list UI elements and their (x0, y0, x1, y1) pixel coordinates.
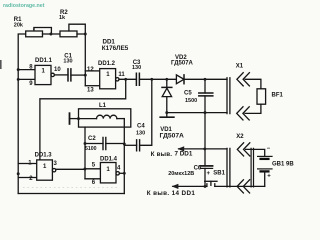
inductor L1 shield box (79, 109, 131, 127)
wire DD1.2 pin13 stub (85, 85, 99, 87)
antenna probe (69, 113, 71, 124)
connector X1 socket lines (227, 78, 230, 114)
svg-text:130: 130 (132, 65, 141, 71)
wire R2 bracket (69, 24, 85, 34)
svg-text:7 DD1: 7 DD1 (175, 151, 193, 158)
node R2 right (84, 33, 87, 36)
capacitor C4 (137, 140, 140, 151)
node DD1.3 out (83, 168, 86, 171)
capacitor C5 (204, 79, 206, 93)
diode VD2 (176, 75, 184, 84)
svg-text:130: 130 (136, 131, 145, 137)
connector X1 top contact (237, 73, 243, 86)
svg-text:radiostorage.net: radiostorage.net (3, 3, 45, 9)
svg-text:К выв.: К выв. (151, 151, 173, 158)
node pin8 (17, 68, 20, 71)
node C1-R2 (84, 74, 87, 77)
arrow to pin 7 DD1 (177, 146, 184, 151)
svg-text:1k: 1k (59, 15, 66, 21)
wire X2 bottom (215, 185, 265, 187)
svg-text:DD1.2: DD1.2 (98, 61, 116, 67)
svg-text:20мкх12В: 20мкх12В (168, 171, 194, 177)
svg-text:ГД507А: ГД507А (171, 61, 194, 67)
node C5 bottom (204, 111, 207, 114)
svg-text:+: + (267, 173, 271, 179)
svg-text:10: 10 (54, 67, 61, 73)
svg-text:1: 1 (106, 166, 110, 173)
svg-text:5100: 5100 (85, 146, 97, 152)
node DD1.4 out (123, 172, 126, 175)
svg-text:К176ЛЕ5: К176ЛЕ5 (102, 45, 129, 52)
wire C4 riser (140, 79, 152, 145)
wire DD1.2 out (119, 78, 136, 80)
svg-text:+: + (207, 171, 211, 177)
connector X2 right lines (251, 148, 253, 187)
svg-text:−: − (267, 146, 271, 152)
node X2 top (203, 147, 206, 150)
svg-text:12: 12 (87, 67, 94, 73)
svg-text:X2: X2 (236, 134, 244, 140)
wire top rail x=85.3 down (84, 34, 86, 86)
node L1 left (77, 117, 80, 120)
wire DD1.4 out (119, 172, 124, 174)
connector X2 bottom contact (237, 180, 243, 193)
capacitor C6 (204, 149, 206, 166)
logic gate DD1.1 (35, 65, 51, 84)
node C6 bottom (204, 185, 207, 188)
logic gate DD1.3 (37, 160, 53, 180)
arrow to pin 14 DD1 (172, 184, 179, 189)
node C4 top (150, 78, 153, 81)
wire bottom rail (18, 193, 124, 195)
wire DD1.4 pin5 stub (85, 168, 100, 170)
wire R1 wiper (34, 28, 52, 35)
wire DD1.2 out feedback drop (40, 79, 126, 160)
logic gate DD1.2 (100, 69, 116, 89)
connector X2 left lines (227, 148, 230, 187)
wire C2 to C4 (106, 143, 125, 145)
svg-text:C5: C5 (184, 91, 192, 97)
wire DD1.3 pin2 (18, 177, 37, 179)
battery GB1 (258, 155, 272, 157)
wire BF1 bottom (245, 104, 261, 113)
wire bottom detector rail (167, 112, 227, 114)
svg-text:C6: C6 (194, 166, 202, 172)
svg-text:20k: 20k (14, 23, 24, 29)
node DD1.3 in (17, 172, 20, 175)
inductor L1 coil (79, 118, 97, 120)
resistor R2 (60, 31, 77, 37)
svg-text:C4: C4 (137, 124, 145, 130)
svg-text:ГД507А: ГД507А (160, 133, 185, 140)
svg-text:L1: L1 (99, 103, 107, 109)
wire R1 to R2 (43, 33, 61, 35)
capacitor C3 (136, 73, 139, 85)
svg-text:130: 130 (63, 59, 72, 65)
wire DD1.3 out (56, 168, 85, 170)
wiper arrow R1 (33, 29, 35, 31)
node C2 left (84, 142, 87, 145)
wire X2 to GB1 (246, 149, 265, 156)
wire DD1.1 out (54, 74, 68, 76)
wire tank rail x=85 (84, 127, 86, 179)
wire X2 top (205, 148, 227, 150)
wire right tank rail x=124.3 (123, 119, 125, 194)
svg-text:DD1.1: DD1.1 (35, 58, 53, 64)
wire DD1.3 pin1 (18, 163, 37, 165)
svg-text:13: 13 (87, 87, 94, 93)
logic gate DD1.4 (100, 163, 116, 183)
wire DD1.1 pin8 (18, 69, 35, 71)
wire tank top (85, 143, 103, 145)
svg-text:C2: C2 (88, 136, 96, 142)
node VD1 bottom (165, 111, 168, 114)
wire X2 drop (204, 113, 206, 149)
wire to pin7 arrow (179, 148, 205, 150)
svg-text:DD1.3: DD1.3 (35, 152, 53, 158)
capacitor C1 (68, 69, 71, 81)
svg-text:К выв. 14 DD1: К выв. 14 DD1 (147, 190, 196, 197)
wire X1 to BF1 (245, 79, 261, 89)
ground (160, 116, 174, 118)
wire R2 right (77, 33, 85, 35)
svg-text:SB1: SB1 (213, 170, 225, 176)
svg-text:DD1.4: DD1.4 (100, 156, 118, 162)
connector X2 top contact (237, 143, 243, 156)
switch SB1 (206, 184, 208, 187)
wire DD1.1 pin9 (18, 78, 35, 80)
speaker BF1 (257, 89, 266, 104)
svg-text:BF1: BF1 (272, 93, 284, 99)
svg-text:GB1 9В: GB1 9В (272, 161, 294, 167)
wire DD1.2 pin12 stub (85, 70, 99, 72)
node pin9 (17, 78, 20, 81)
arrowheads (33, 29, 184, 189)
scan artifact dotted line (23, 186, 120, 188)
wire left rail (18, 34, 26, 194)
capacitor C2 (103, 138, 106, 150)
svg-text:1500: 1500 (185, 98, 197, 104)
resistor R1 (26, 31, 43, 37)
node DD1.2 out (124, 78, 127, 81)
connector X1 bottom contact (237, 107, 243, 120)
svg-text:X1: X1 (236, 64, 244, 70)
scan artifact left edge (0, 60, 2, 69)
node C2-C4 (123, 142, 126, 145)
wire DD1.4 pin6 stub (85, 178, 100, 180)
svg-text:11: 11 (118, 72, 125, 78)
wire top detector rail (139, 78, 227, 80)
node C5 top (204, 78, 207, 81)
node VD1 top (165, 78, 168, 81)
diode VD1 vertical (166, 79, 168, 117)
node R1-R2 (49, 33, 52, 36)
wire C1 to node (71, 74, 85, 76)
